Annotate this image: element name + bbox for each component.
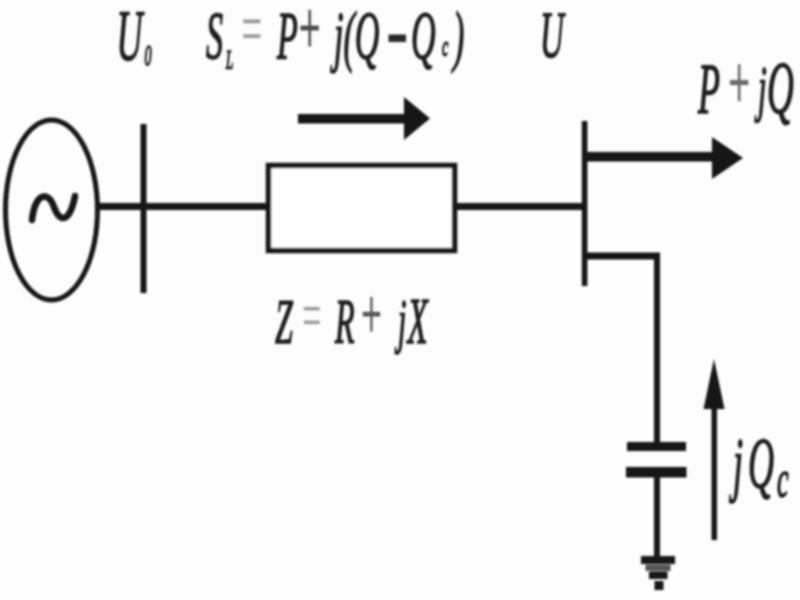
wire: bus U to capacitor branch (horizontal) [585, 253, 660, 260]
svg-text:U: U [540, 0, 566, 72]
wire: impedance to bus U [455, 203, 584, 210]
wire: capacitor branch vertical upper [654, 254, 660, 443]
arrow: power flow S_L over impedance [298, 97, 430, 140]
generator sine symbol [32, 196, 75, 220]
capacitor C1 bottom plate [626, 467, 687, 478]
wire: capacitor to ground vertical [654, 477, 660, 557]
generator G1 (AC source circle) [6, 120, 98, 300]
ground symbol [641, 556, 675, 590]
minus sign of (Q - Qc) in S_L label [389, 35, 407, 43]
wire: generator to impedance (through bus U0) [97, 203, 268, 210]
svg-text:P+jQ: P+jQ [697, 40, 793, 130]
svg-text:SL=P+j(QQc): SL=P+j(QQc) [206, 0, 464, 75]
arrow: capacitor reactive power jQc (upward) [704, 359, 725, 540]
capacitor C1 top plate [627, 442, 686, 451]
bus U0 (bar B1) [141, 124, 147, 293]
arrow: load power P+jQ out of bus U [585, 137, 743, 179]
bus U (bar B2) [582, 121, 588, 286]
impedance Z1 (series branch box) [269, 166, 455, 251]
